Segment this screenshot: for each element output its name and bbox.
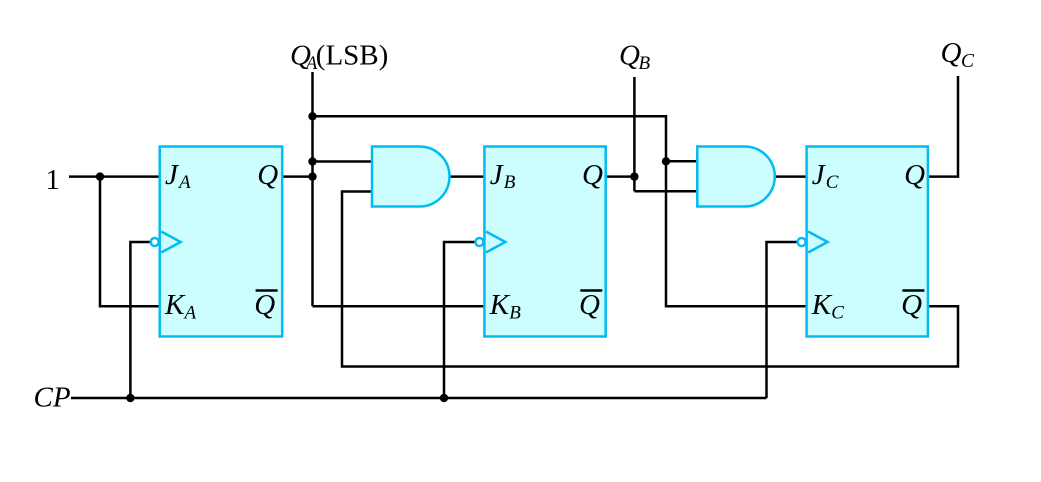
wire: CP bus bbox=[71, 397, 767, 400]
flip-flop U3 (FF C) body bbox=[807, 147, 928, 337]
junction: Q_A at Q output bbox=[308, 172, 316, 180]
svg-text:A: A bbox=[183, 303, 197, 324]
wire: Q_A label vertical bbox=[311, 72, 314, 306]
svg-text:J: J bbox=[490, 159, 504, 191]
svg-text:1: 1 bbox=[46, 164, 61, 196]
svg-text:A: A bbox=[177, 172, 191, 193]
clock bubble FF C bbox=[798, 238, 806, 246]
wire: Q_B to AND2 bottom input bbox=[634, 190, 697, 193]
junction: Q_A at AND1 input bbox=[308, 157, 316, 165]
svg-text:C: C bbox=[961, 51, 975, 72]
clock wedge FF B bbox=[486, 232, 506, 253]
wire: Qbar_C to AND1 bottom input bbox=[342, 192, 958, 367]
svg-text:(LSB): (LSB) bbox=[316, 40, 389, 72]
wire: CP to FF B clock bbox=[444, 242, 476, 398]
junction: Q_B at Q output bbox=[630, 172, 638, 180]
svg-text:Q: Q bbox=[901, 289, 922, 321]
svg-text:K: K bbox=[164, 289, 186, 321]
svg-text:B: B bbox=[504, 172, 516, 193]
svg-text:Q: Q bbox=[254, 289, 275, 321]
AND gate G2 bbox=[697, 147, 775, 207]
junction: Q_A feed at AND2 input bbox=[662, 157, 670, 165]
svg-text:J: J bbox=[812, 159, 826, 191]
junction: CP at FF A clock bbox=[126, 394, 134, 402]
svg-text:CP: CP bbox=[34, 381, 71, 413]
wire: Q_A to K_B bbox=[313, 305, 485, 308]
wire: Q_A to AND1 top input bbox=[313, 160, 373, 163]
junction: J_A/K_A tie bbox=[96, 172, 104, 180]
wire: CP to FF A clock bbox=[130, 242, 151, 398]
junction: Q_A at top feed bbox=[308, 112, 316, 120]
svg-text:Q: Q bbox=[941, 37, 962, 69]
wire: net 1 to J_A bbox=[69, 175, 160, 178]
AND gate G1 bbox=[372, 147, 450, 207]
svg-text:Q: Q bbox=[904, 159, 925, 191]
svg-text:Q: Q bbox=[619, 40, 640, 72]
wire: AND1 output to J_B bbox=[450, 175, 485, 178]
junction: CP at FF B clock bbox=[440, 394, 448, 402]
svg-text:B: B bbox=[639, 53, 651, 74]
wire: Q_B label vertical bbox=[633, 77, 636, 191]
svg-text:B: B bbox=[509, 303, 521, 324]
svg-text:K: K bbox=[489, 289, 511, 321]
clock wedge FF A bbox=[161, 232, 181, 253]
clock bubble FF B bbox=[475, 238, 483, 246]
wire: AND2 top input from Q_A feed bbox=[666, 160, 697, 163]
svg-text:Q: Q bbox=[579, 289, 600, 321]
clock wedge FF C bbox=[808, 232, 828, 253]
wire: vertical J_A to K_A tie bbox=[100, 177, 160, 307]
svg-text:C: C bbox=[826, 172, 839, 193]
wire: CP to FF C clock bbox=[767, 242, 798, 398]
wire: Q_A top feed to K_C branch bbox=[313, 116, 807, 306]
svg-text:C: C bbox=[831, 303, 844, 324]
wire: Q_A output stub bbox=[282, 175, 313, 178]
flip-flop U1 (FF A) body bbox=[160, 147, 283, 337]
svg-text:J: J bbox=[165, 159, 179, 191]
svg-text:K: K bbox=[811, 289, 833, 321]
svg-text:Q: Q bbox=[582, 159, 603, 191]
flip-flop U2 (FF B) body bbox=[484, 147, 605, 337]
clock bubble FF A bbox=[151, 238, 159, 246]
wire: Q_B output stub bbox=[606, 175, 635, 178]
wire: Q_C output to label bbox=[928, 76, 958, 177]
svg-text:Q: Q bbox=[257, 159, 278, 191]
wire: AND2 output to J_C bbox=[775, 175, 807, 178]
